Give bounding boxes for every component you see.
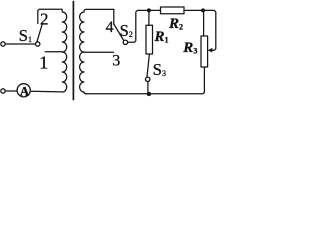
wire: top terminal to S1 pivot <box>5 43 35 45</box>
junction: top rail / R3 branch <box>201 8 205 12</box>
rheostat R3 wiper arrow <box>208 48 213 53</box>
switch S1 pivot <box>36 42 40 46</box>
ammeter A <box>17 84 30 97</box>
wire: top rail to R2 <box>149 9 161 11</box>
switch S2 blade <box>114 24 124 41</box>
svg-text:S2: S2 <box>120 21 133 40</box>
wire: contact stub of tap 2 <box>38 9 62 23</box>
wire: tap 4 stub down <box>113 9 115 24</box>
svg-text:S1: S1 <box>19 26 32 45</box>
resistor R1 <box>146 25 153 54</box>
switch S2 pivot <box>123 40 127 44</box>
wire: R3 branch top lead <box>203 10 205 36</box>
junction: top rail / R1 branch <box>147 8 151 12</box>
svg-text:4: 4 <box>106 19 114 36</box>
transformer core <box>72 2 74 100</box>
terminal: left input top <box>1 42 5 46</box>
wire: top rail to wiper branch corner <box>203 10 216 50</box>
svg-text:R1: R1 <box>154 29 169 45</box>
rheostat R3 body <box>201 36 208 67</box>
junction: bottom rail / S3 branch <box>147 92 151 96</box>
switch S3 pivot <box>146 77 150 81</box>
svg-text:2: 2 <box>40 10 49 29</box>
wire: S3 pivot to bottom rail <box>147 82 149 94</box>
wire: S2 pivot up to top rail <box>128 10 147 42</box>
resistor R2 <box>161 7 185 14</box>
svg-text:A: A <box>20 83 30 98</box>
transformer secondary winding <box>80 9 114 93</box>
wire: tap 1 stub <box>45 51 62 53</box>
transformer primary winding <box>62 9 67 92</box>
svg-text:3: 3 <box>112 52 120 69</box>
switch S1 blade <box>37 24 43 42</box>
wire: bottom terminal to ammeter <box>5 90 17 92</box>
wire: R1 branch top lead <box>148 10 150 25</box>
svg-text:R2: R2 <box>168 16 183 32</box>
wire: R2 to R3-branch junction <box>184 9 203 11</box>
wire: R3 bottom lead <box>203 67 205 92</box>
wire: ammeter to primary bottom <box>30 90 61 93</box>
svg-text:R3: R3 <box>182 40 197 56</box>
wire: bottom rail (secondary side) <box>86 92 205 93</box>
switch S3 blade <box>147 54 149 77</box>
wire: secondary tap 3 stub <box>84 51 114 53</box>
svg-text:1: 1 <box>39 53 48 73</box>
svg-text:S3: S3 <box>153 60 166 79</box>
terminal: left input bottom <box>1 89 5 93</box>
